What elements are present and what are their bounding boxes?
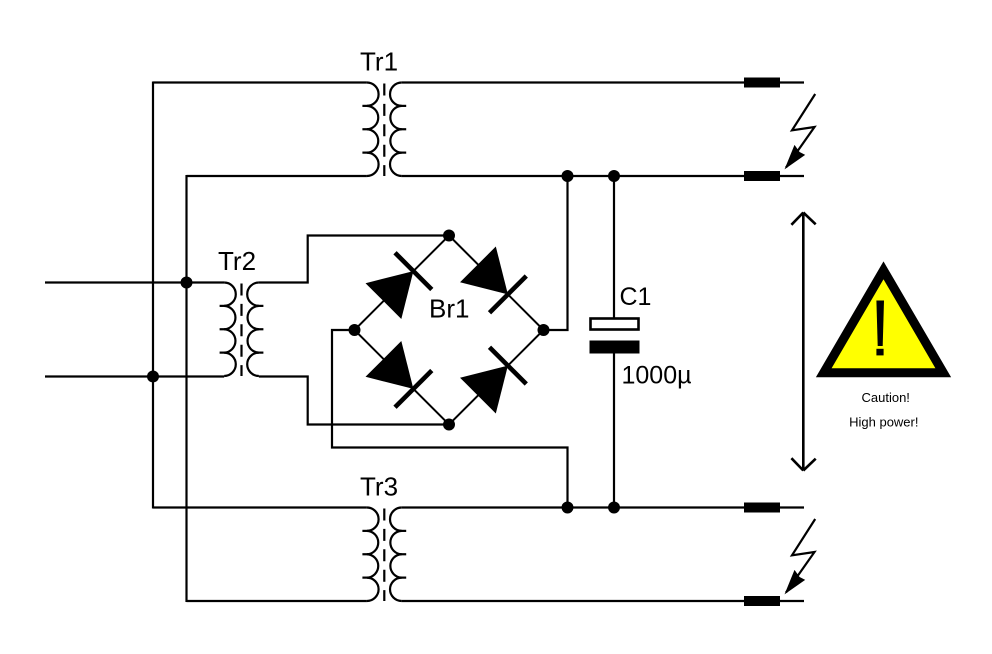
wire bridge minus (left corner) to Tr3 top line	[332, 330, 568, 508]
wire AC input lower	[45, 375, 224, 377]
diode D2 (top-right arm)	[460, 246, 527, 313]
wire left bus 2 vertical	[185, 175, 187, 602]
svg-text:High power!: High power!	[849, 414, 918, 429]
warning triangle symbol	[824, 270, 944, 373]
wire Tr1 secondary top	[402, 81, 744, 83]
diode D4 (bottom-right arm)	[460, 347, 527, 414]
fuse F3 (output bottom line 1)	[744, 503, 780, 513]
wire AC input upper	[45, 281, 224, 283]
wire output stub	[780, 600, 804, 602]
svg-text:Caution!: Caution!	[861, 390, 909, 405]
node junction bus1/lower input	[147, 371, 159, 383]
node bridge AC top	[443, 230, 455, 242]
wire output stub	[780, 175, 804, 177]
node bridge DC minus left	[349, 324, 361, 336]
svg-text:C1: C1	[620, 283, 652, 311]
wire left bus 1 vertical	[152, 82, 154, 509]
capacitor C1 positive plate	[591, 319, 639, 330]
lightning flash arrow top output	[786, 94, 815, 168]
node junction rail/C1 bottom	[608, 502, 620, 514]
diode D3 (left-bottom arm)	[365, 341, 432, 408]
transformer Tr3	[362, 508, 406, 602]
svg-text:Tr1: Tr1	[360, 46, 398, 76]
double arrow output span	[791, 213, 815, 471]
wire Tr1 primary top (left bus to Tr1)	[153, 81, 367, 83]
wire Tr1 secondary bottom	[402, 175, 744, 177]
wire C1 upper lead	[613, 176, 615, 319]
node junction rail/bridge-minus	[562, 502, 574, 514]
svg-text:Br1: Br1	[429, 294, 469, 324]
wire Tr3 secondary bottom	[402, 600, 744, 602]
wire Tr2 secondary top to bridge AC top	[259, 236, 449, 283]
svg-text:1000µ: 1000µ	[622, 361, 692, 389]
node bridge DC plus right	[538, 324, 550, 336]
wire bridge plus (right corner) to Tr1 bottom line	[544, 176, 568, 330]
bridge Br1 diamond arms	[355, 236, 544, 425]
svg-text:Tr2: Tr2	[218, 246, 256, 276]
wire output stub	[780, 81, 804, 83]
transformer Tr2	[220, 283, 264, 377]
fuse F2 (output top line 2)	[744, 171, 780, 181]
fuse F1 (output top line 1)	[744, 78, 780, 88]
node junction rail/C1 top	[608, 170, 620, 182]
warning triangle exclamation mark	[876, 301, 884, 356]
fuse F4 (output bottom line 2)	[744, 596, 780, 606]
node bridge AC bottom	[443, 419, 455, 431]
wire Tr3 primary top	[153, 506, 367, 508]
transformer Tr1	[362, 83, 406, 177]
wire Tr3 secondary top	[402, 506, 744, 508]
capacitor C1 negative plate	[590, 341, 640, 354]
lightning flash arrow bottom output	[786, 519, 815, 593]
wire Tr2 secondary bottom to bridge AC bottom	[259, 377, 449, 425]
wire output stub	[780, 506, 804, 508]
node junction rail/bridge-plus	[562, 170, 574, 182]
node junction bus2/upper input	[181, 277, 193, 289]
wire Tr1 primary bottom (left bus 2 to Tr1)	[187, 175, 367, 177]
wire Tr3 primary bottom	[187, 600, 367, 602]
wire C1 lower lead	[613, 354, 615, 508]
diode D1 (left-top arm)	[365, 253, 432, 320]
svg-text:Tr3: Tr3	[360, 472, 398, 502]
